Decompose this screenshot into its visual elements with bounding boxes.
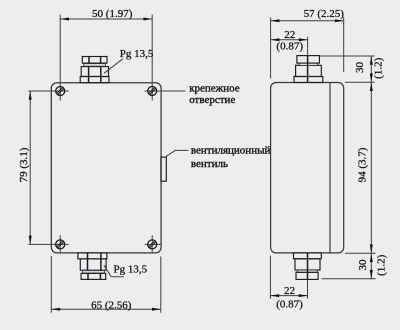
top cable gland side: middle hex nut [296,65,322,76]
dimension 57 (2.25) top of side view [271,17,344,78]
mounting hole screw top-right [145,15,186,101]
svg-text:30: 30 [357,259,369,271]
leader Pg 13,5 top [104,59,123,74]
top cable gland side: washer [299,63,318,65]
svg-text:65 (2.56): 65 (2.56) [91,299,132,311]
dimension 22 (0.87) top [271,37,308,56]
dimension 30 (1.2) bottom right [370,253,373,262]
top cable gland side: top hex nut [297,56,320,64]
svg-text:Pg 13,5: Pg 13,5 [114,264,148,276]
bottom gland hex face lines [88,253,101,280]
top gland hex face lines [89,57,101,83]
bottom cable gland side: washer [297,270,317,272]
svg-text:94 (3.7): 94 (3.7) [357,147,369,182]
mounting hole screw top-left [28,15,68,101]
svg-text:79 (3.1): 79 (3.1) [18,147,30,182]
svg-text:30: 30 [354,62,366,74]
dimension 30 (1.2) top right [370,56,373,65]
top cable gland front: washer [84,64,106,67]
top gland side center line [307,56,309,83]
svg-text:50 (1.97): 50 (1.97) [92,8,133,20]
svg-text:(0.87): (0.87) [276,298,303,310]
top cable gland side: base [294,56,323,83]
bottom cable gland front: washer [83,271,105,274]
ventilation valve on right edge [161,157,166,181]
top cable gland front: top hex nut [82,57,107,64]
svg-text:(1.2): (1.2) [373,57,385,78]
bottom cable gland side: bottom hex nut [296,272,318,279]
dimension 22 (0.87) bottom [270,256,307,299]
dimension 50 (1.97) top of front view [60,18,152,20]
svg-text:22: 22 [284,285,295,297]
dimension 79 (3.1) left of front view [29,91,31,244]
right dimension chain extension lines [320,56,376,279]
leader ventilation valve [166,150,189,156]
svg-text:вентиляционный: вентиляционный [191,145,271,157]
enclosure body side view [271,83,344,253]
svg-text:(1.2): (1.2) [376,254,388,275]
dimension 94 (3.7) right [370,82,373,91]
svg-text:57 (2.25): 57 (2.25) [304,8,345,20]
bottom cable gland side: middle hex nut [295,259,320,270]
bottom cable gland front: base [78,253,107,280]
top cable gland front: base [80,57,109,83]
svg-text:(0.87): (0.87) [276,41,303,53]
bottom cable gland front: bottom hex nut [81,273,106,279]
svg-text:Pg 13,5: Pg 13,5 [120,48,154,60]
bottom gland side center line [307,253,309,280]
svg-text:крепежное: крепежное [189,82,240,94]
side view cover seam line [329,83,331,253]
bottom cable gland side: base [294,253,322,280]
right dimension chain line [370,56,372,279]
bottom cable gland front: middle hex nut [80,259,106,270]
mounting hole screw bottom-left [28,235,68,253]
svg-text:отверстие: отверстие [189,94,235,106]
leader Pg 13,5 bottom [104,265,124,277]
svg-text:22: 22 [284,29,295,41]
mounting hole screw bottom-right [145,235,161,253]
svg-text:вентиль: вентиль [191,158,228,170]
top cable gland front: middle hex nut [81,67,108,77]
enclosure body front view [51,83,161,253]
dimension 65 (2.56) bottom of front view [51,256,161,313]
